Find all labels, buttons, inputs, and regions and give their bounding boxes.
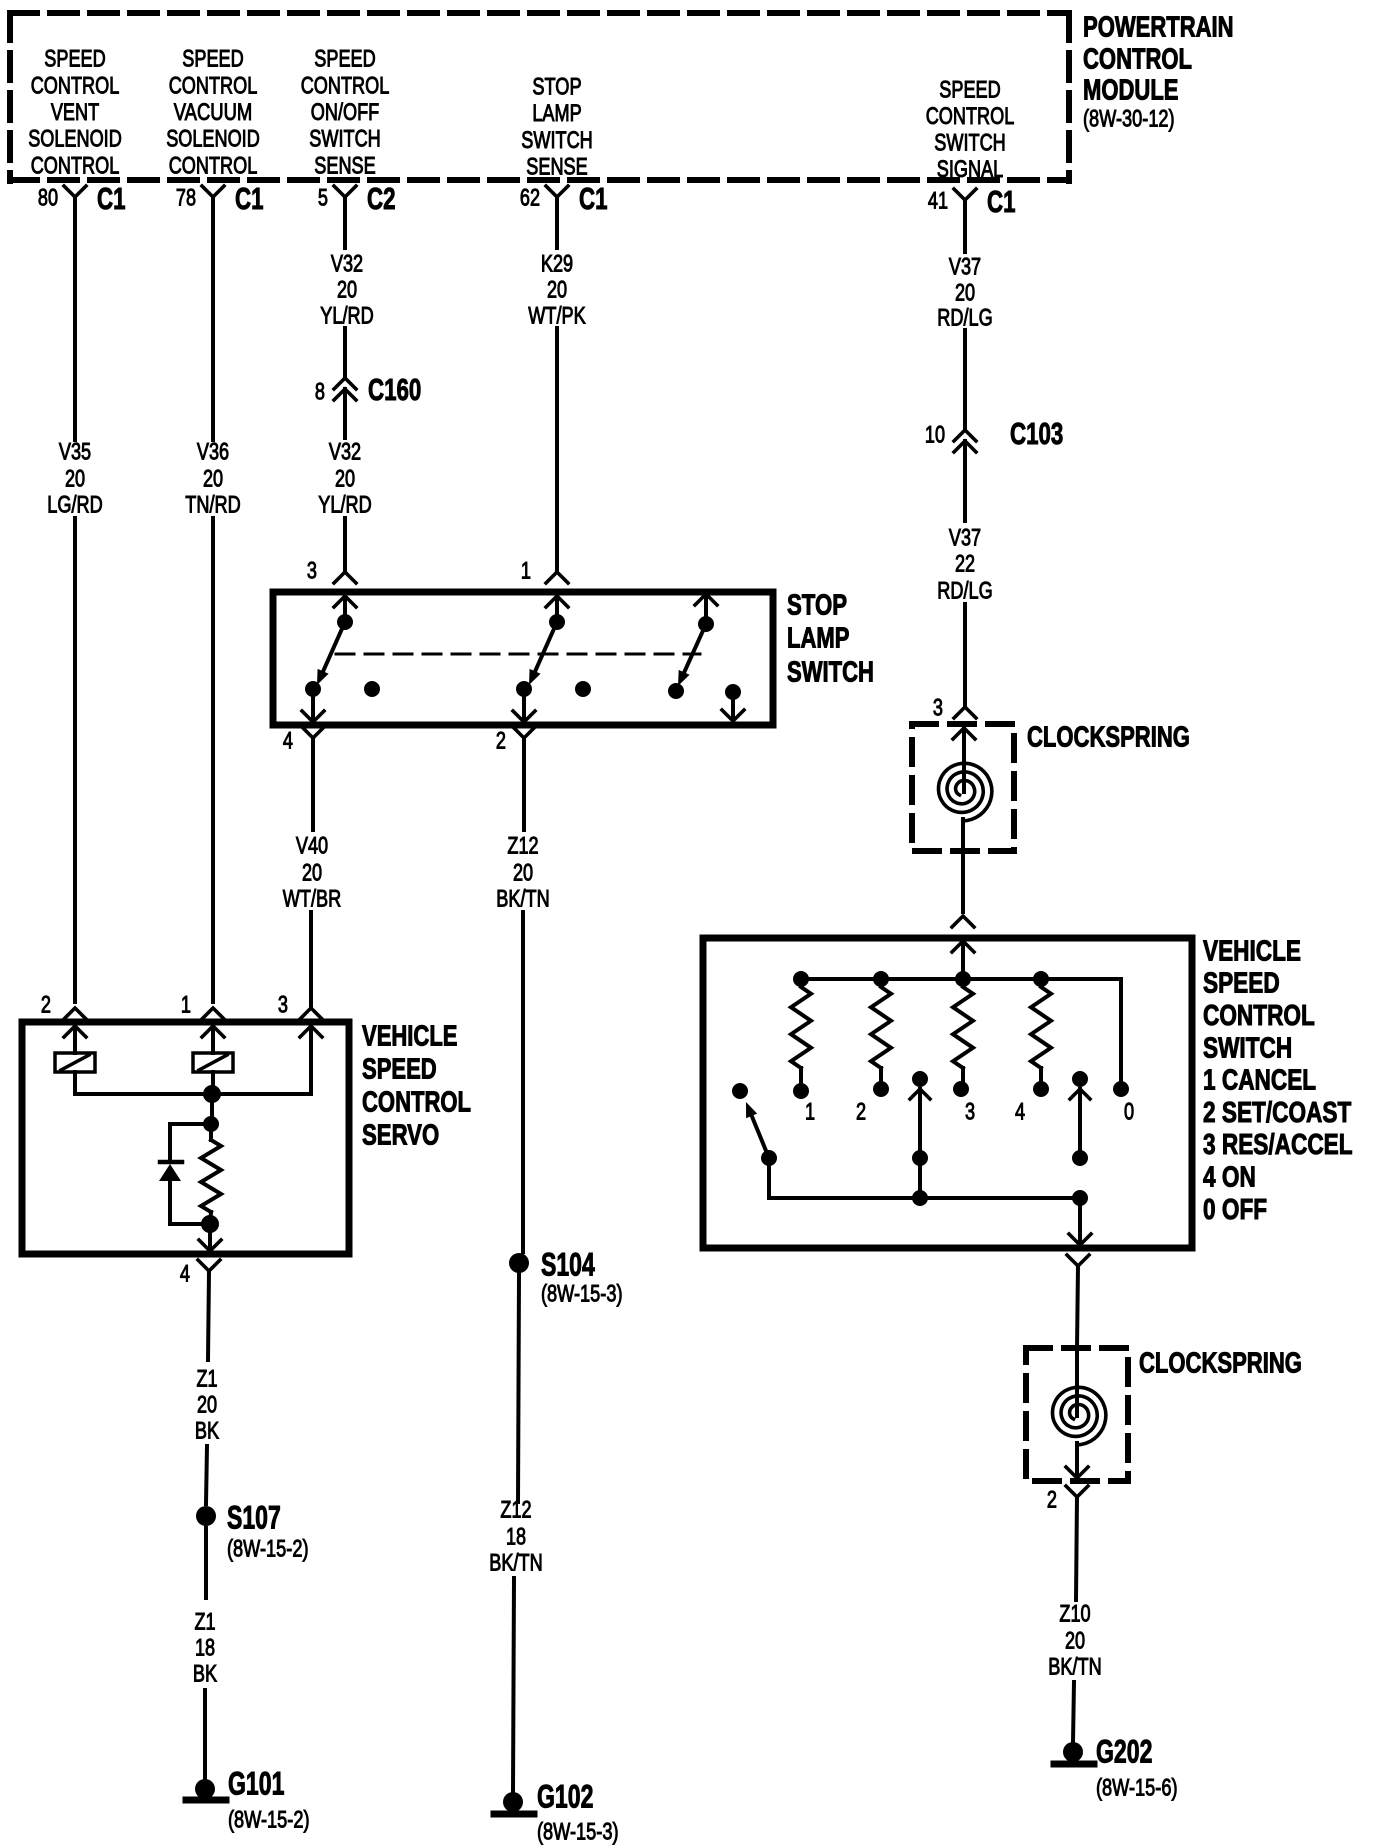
wire V35 upper segment: [73, 197, 77, 440]
servo diode branch wire: [170, 1124, 211, 1160]
in-line connector C103 pin 10: [925, 416, 1063, 452]
svg-text:SIGNAL: SIGNAL: [937, 156, 1004, 183]
wire label V35 20 LG/RD: [47, 439, 102, 519]
PCM pin label: SPEED CONTROL SWITCH SIGNAL: [926, 77, 1015, 183]
svg-text:RD/LG: RD/LG: [937, 305, 992, 332]
switch contact 4: [1033, 1081, 1049, 1097]
wire Z12 to ground G102: [513, 1578, 514, 1792]
svg-text:SPEED: SPEED: [314, 46, 375, 73]
PCM pin label: SPEED CONTROL VACUUM SOLENOID CONTROL: [166, 46, 260, 180]
servo title VEHICLE SPEED CONTROL SERVO: [362, 1020, 471, 1151]
svg-text:VEHICLE: VEHICLE: [362, 1020, 458, 1052]
clockspring upper dashed box: [912, 724, 1014, 851]
stop lamp switch pole 3 entry arrow: [695, 594, 717, 618]
PCM pin 80 connector C1: [38, 181, 126, 216]
wire Z12 below S104: [518, 1274, 519, 1502]
switch movable contact A wire to bus: [918, 1158, 922, 1198]
clockspring lower spiral: [1053, 1387, 1106, 1445]
stop lamp switch pole 1 upper contact: [337, 614, 353, 630]
svg-text:62: 62: [520, 185, 540, 212]
wire V40 upper segment: [311, 738, 315, 830]
svg-text:VACUUM: VACUUM: [174, 99, 253, 126]
switch contact 0: [1113, 1081, 1129, 1097]
svg-text:V32: V32: [331, 251, 363, 278]
stop lamp switch title: [787, 589, 874, 688]
servo pin 4 connector: [180, 1260, 220, 1288]
svg-text:CONTROL: CONTROL: [31, 72, 120, 99]
svg-text:V35: V35: [59, 439, 91, 466]
svg-text:20: 20: [513, 860, 533, 887]
stop lamp switch pin 3 entry connector: [307, 558, 356, 585]
svg-text:3: 3: [307, 558, 317, 585]
svg-text:(8W-30-12): (8W-30-12): [1083, 106, 1175, 133]
svg-text:C103: C103: [1010, 416, 1063, 451]
svg-text:10: 10: [925, 422, 945, 449]
servo pin 3 connector: [278, 992, 322, 1019]
svg-text:LG/RD: LG/RD: [47, 492, 102, 519]
svg-text:SENSE: SENSE: [314, 152, 375, 179]
svg-text:2 SET/COAST: 2 SET/COAST: [1203, 1097, 1352, 1129]
wire K29 lower segment: [555, 328, 559, 572]
vehicle speed control switch title: [1203, 935, 1353, 1225]
switch contact 3: [953, 1081, 969, 1097]
svg-text:3 RES/ACCEL: 3 RES/ACCEL: [1203, 1129, 1353, 1161]
stop lamp switch pole 1 lower contact: [305, 681, 321, 697]
PCM pin label: SPEED CONTROL ON/OFF SWITCH SENSE: [301, 46, 390, 180]
svg-text:BK/TN: BK/TN: [1048, 1654, 1101, 1681]
svg-text:SPEED: SPEED: [1203, 968, 1280, 1000]
switch wiper fixed contact: [732, 1083, 748, 1099]
switch wiper pivot contact: [761, 1150, 777, 1166]
servo diode: [159, 1162, 182, 1181]
clockspring upper entry arrow: [953, 728, 975, 792]
wire label V32 20 YL/RD (upper): [320, 251, 373, 330]
switch contact 1: [793, 1083, 809, 1099]
stop lamp switch pole 1 blade: [323, 622, 345, 671]
svg-text:4: 4: [180, 1261, 190, 1288]
stop lamp switch pin 2 exit connector: [496, 727, 535, 755]
svg-text:WT/PK: WT/PK: [528, 303, 585, 330]
switch resistor 4: [1031, 987, 1051, 1081]
servo bus junction: [203, 1085, 221, 1103]
svg-text:2: 2: [1047, 1487, 1057, 1514]
svg-text:K29: K29: [541, 251, 573, 278]
svg-text:Z1: Z1: [194, 1609, 215, 1636]
svg-text:20: 20: [197, 1392, 217, 1419]
wire V40 lower segment: [309, 912, 313, 1006]
stop lamp switch pole 2 NC contact: [575, 681, 591, 697]
stop lamp switch box: [273, 592, 773, 725]
wire V37 segment from PCM: [963, 200, 967, 252]
switch movable contact A node: [912, 1150, 928, 1166]
svg-text:(8W-15-3): (8W-15-3): [541, 1281, 623, 1308]
switch contact 2: [873, 1081, 889, 1097]
svg-text:RD/LG: RD/LG: [937, 578, 992, 605]
PCM pin label: SPEED CONTROL VENT SOLENOID CONTROL: [28, 46, 122, 180]
svg-text:G102: G102: [537, 1779, 593, 1815]
servo pin 1 entry arrow: [202, 1026, 224, 1053]
wire V36 upper segment: [211, 197, 215, 440]
wire K29 upper segment: [555, 197, 559, 248]
svg-text:(8W-15-2): (8W-15-2): [227, 1536, 309, 1563]
clockspring upper spiral: [939, 763, 992, 821]
svg-text:SERVO: SERVO: [362, 1119, 439, 1151]
svg-text:Z1: Z1: [196, 1366, 217, 1393]
powertrain control module PCM dashed box: [10, 13, 1069, 181]
svg-text:V40: V40: [296, 833, 328, 860]
svg-text:CONTROL: CONTROL: [926, 103, 1015, 130]
wire Z12 to splice S104: [521, 912, 525, 1252]
wire label V37 20 RD/LG: [937, 254, 992, 332]
wire from switch to lower clockspring: [1077, 1266, 1078, 1348]
svg-text:BK/TN: BK/TN: [489, 1550, 542, 1577]
ground G202: [1054, 1734, 1178, 1802]
servo diode lower wire: [170, 1181, 209, 1224]
svg-text:POWERTRAIN: POWERTRAIN: [1083, 11, 1234, 43]
svg-text:20: 20: [65, 466, 85, 493]
switch bus junction dots: [793, 971, 1049, 987]
svg-text:TN/RD: TN/RD: [185, 492, 240, 519]
switch bottom bus wire: [769, 1158, 1080, 1198]
wire label V36 20 TN/RD: [185, 439, 240, 519]
svg-text:8: 8: [315, 379, 325, 406]
svg-text:LAMP: LAMP: [532, 100, 581, 127]
switch movable contact B node: [1072, 1150, 1088, 1166]
svg-text:1: 1: [521, 558, 531, 585]
svg-text:SWITCH: SWITCH: [521, 127, 593, 154]
svg-text:5: 5: [318, 185, 328, 212]
wire Z1 to splice S107: [206, 1446, 207, 1504]
svg-text:C1: C1: [235, 181, 264, 216]
svg-text:CLOCKSPRING: CLOCKSPRING: [1027, 721, 1190, 753]
wire V37 to C103: [963, 330, 967, 429]
svg-text:Z12: Z12: [500, 1497, 531, 1524]
clockspring upper exit wire: [961, 819, 965, 912]
svg-text:80: 80: [38, 185, 58, 212]
svg-text:WT/BR: WT/BR: [283, 886, 341, 913]
svg-text:20: 20: [1065, 1628, 1085, 1655]
stop lamp switch pole 3 lower contact: [668, 683, 684, 699]
svg-text:SWITCH: SWITCH: [309, 126, 381, 153]
switch resistor 1: [791, 987, 811, 1083]
stop lamp switch pole 3 upper contact: [698, 616, 714, 632]
svg-text:20: 20: [335, 466, 355, 493]
switch movable contact B: [1070, 1071, 1090, 1150]
svg-text:CONTROL: CONTROL: [301, 72, 390, 99]
PCM pin label: STOP LAMP SWITCH SENSE: [521, 74, 593, 181]
servo pin 1 connector: [181, 992, 224, 1019]
svg-text:1 CANCEL: 1 CANCEL: [1203, 1065, 1316, 1097]
svg-text:20: 20: [337, 277, 357, 304]
stop lamp switch pin 3 entry arrow: [334, 596, 356, 618]
svg-text:SWITCH: SWITCH: [1203, 1032, 1292, 1064]
PCM pin 5 connector C2: [318, 181, 396, 216]
in-line connector C160 pin 8: [315, 372, 421, 407]
svg-text:SPEED: SPEED: [939, 77, 1000, 104]
svg-text:V32: V32: [329, 439, 361, 466]
PCM pin 78 connector C1: [176, 181, 264, 216]
wire label Z1 18 BK: [193, 1609, 217, 1688]
svg-text:CONTROL: CONTROL: [31, 152, 120, 179]
wire V35 lower segment: [73, 518, 77, 1002]
svg-text:YL/RD: YL/RD: [318, 492, 371, 519]
svg-text:V37: V37: [949, 254, 981, 281]
wire label Z10 20 BK/TN: [1048, 1601, 1101, 1681]
svg-text:Z10: Z10: [1059, 1601, 1090, 1628]
svg-text:C1: C1: [97, 181, 126, 216]
svg-text:2: 2: [496, 728, 506, 755]
stop lamp switch pole 3 blade: [684, 624, 706, 672]
servo pin 3 entry arrow: [300, 1026, 322, 1094]
switch resistor 2: [871, 987, 891, 1081]
svg-text:2: 2: [41, 992, 51, 1019]
svg-text:G101: G101: [228, 1766, 284, 1802]
clockspring pin 3 connector: [933, 695, 976, 722]
svg-text:3: 3: [278, 992, 288, 1019]
svg-text:V36: V36: [197, 439, 229, 466]
svg-text:(8W-15-2): (8W-15-2): [228, 1807, 310, 1834]
wire label Z12 18 BK/TN: [489, 1497, 542, 1577]
switch bottom bus junction A: [912, 1190, 928, 1206]
svg-text:BK: BK: [193, 1661, 217, 1688]
splice S104: [509, 1247, 623, 1308]
wire Z1 to ground G101: [203, 1690, 207, 1780]
stop lamp switch pole 2 lower contact: [516, 681, 532, 697]
svg-text:4: 4: [283, 728, 293, 755]
servo internal bus wire: [75, 1072, 311, 1094]
servo vacuum solenoid coil: [193, 1053, 233, 1072]
svg-text:CONTROL: CONTROL: [1203, 1000, 1315, 1032]
svg-text:18: 18: [195, 1635, 215, 1662]
svg-text:(8W-15-6): (8W-15-6): [1096, 1775, 1178, 1802]
svg-text:20: 20: [302, 860, 322, 887]
wire Z1 below S107: [204, 1528, 208, 1598]
svg-text:BK/TN: BK/TN: [496, 886, 549, 913]
wire V37 to clockspring pin 3: [963, 604, 967, 707]
wire V32 to C160: [343, 328, 347, 377]
wire Z12 upper segment: [522, 738, 526, 830]
wire V37 below C103: [963, 441, 967, 521]
svg-text:CONTROL: CONTROL: [169, 152, 258, 179]
svg-text:20: 20: [203, 466, 223, 493]
svg-text:SWITCH: SWITCH: [787, 656, 874, 688]
svg-text:V37: V37: [949, 525, 981, 552]
svg-text:0: 0: [1124, 1099, 1134, 1126]
wire V32 segment from PCM: [343, 197, 347, 248]
svg-text:LAMP: LAMP: [787, 622, 849, 654]
switch exit wire with arrow: [1069, 1198, 1091, 1245]
svg-text:STOP: STOP: [532, 74, 581, 101]
svg-text:CLOCKSPRING: CLOCKSPRING: [1139, 1347, 1302, 1379]
wire label Z1 20 BK: [195, 1366, 219, 1445]
svg-text:41: 41: [928, 188, 948, 215]
svg-text:4 ON: 4 ON: [1203, 1162, 1256, 1194]
wire Z1 upper segment: [208, 1271, 209, 1360]
svg-text:Z12: Z12: [507, 833, 538, 860]
clockspring lower exit arrow: [1066, 1443, 1088, 1478]
svg-text:C1: C1: [987, 184, 1016, 219]
wire label V40 20 WT/BR: [283, 833, 341, 913]
stop lamp switch pin 4 exit connector: [283, 727, 324, 755]
svg-text:SOLENOID: SOLENOID: [28, 126, 122, 153]
svg-text:MODULE: MODULE: [1083, 74, 1179, 106]
svg-text:BK: BK: [195, 1418, 219, 1445]
ground G101: [186, 1766, 310, 1834]
stop lamp switch pole 2 blade: [535, 622, 557, 671]
svg-text:C1: C1: [579, 181, 608, 216]
svg-text:SPEED: SPEED: [182, 46, 243, 73]
wire label V37 22 RD/LG: [937, 525, 992, 605]
svg-text:CONTROL: CONTROL: [1083, 43, 1192, 75]
clockspring lower entry wire: [1075, 1348, 1079, 1416]
svg-text:18: 18: [506, 1524, 526, 1551]
switch top bus wire: [801, 979, 1121, 1081]
wire Z10 to ground G202: [1073, 1682, 1074, 1742]
svg-text:22: 22: [955, 551, 975, 578]
servo exit wire with arrow: [199, 1224, 221, 1251]
wire label K29 20 WT/PK: [528, 251, 585, 330]
svg-text:VEHICLE: VEHICLE: [1203, 935, 1301, 967]
wire label Z12 20 BK/TN: [496, 833, 549, 913]
PCM pin 41 connector C1: [928, 184, 1016, 219]
wire V32 to stop lamp switch: [343, 518, 347, 572]
switch bottom bus junction B: [1072, 1190, 1088, 1206]
stop lamp switch mechanical coupling dashed line: [336, 653, 700, 656]
svg-text:78: 78: [176, 185, 196, 212]
PCM title POWERTRAIN CONTROL MODULE (8W-30-12): [1083, 11, 1234, 132]
stop lamp switch pin 1 entry arrow: [546, 596, 568, 618]
switch wiper blade: [752, 1116, 769, 1158]
clockspring pin 2 connector: [1047, 1486, 1088, 1514]
servo pin 2 entry arrow: [64, 1026, 86, 1053]
svg-text:ON/OFF: ON/OFF: [311, 99, 380, 126]
vehicle speed control switch entry connector: [952, 916, 974, 927]
svg-text:SPEED: SPEED: [44, 46, 105, 73]
svg-text:CONTROL: CONTROL: [362, 1086, 471, 1118]
servo resistor: [201, 1124, 221, 1224]
svg-text:20: 20: [955, 280, 975, 307]
svg-text:SENSE: SENSE: [526, 153, 587, 180]
wire Z10 upper segment: [1076, 1497, 1077, 1600]
vehicle speed control switch entry arrow: [952, 941, 974, 979]
svg-text:YL/RD: YL/RD: [320, 303, 373, 330]
stop lamp switch pole 1 NC contact: [364, 681, 380, 697]
svg-text:0 OFF: 0 OFF: [1203, 1194, 1267, 1226]
switch exit connector: [1067, 1255, 1089, 1266]
wire V32 below C160: [343, 389, 347, 438]
wire label V32 20 YL/RD (lower): [318, 439, 371, 519]
stop lamp switch pin 1 entry connector: [521, 558, 568, 585]
svg-text:3: 3: [933, 695, 943, 722]
servo lower junction: [201, 1215, 219, 1233]
servo wire to resistor/diode node: [210, 1094, 214, 1124]
svg-text:SWITCH: SWITCH: [934, 129, 1006, 156]
servo vent solenoid coil: [55, 1053, 95, 1072]
stop lamp switch pole 3 NC contact with stub: [722, 684, 744, 721]
svg-text:C2: C2: [367, 181, 396, 216]
svg-text:20: 20: [547, 277, 567, 304]
PCM pin 62 connector C1: [520, 181, 608, 216]
splice S107: [196, 1500, 309, 1563]
svg-text:S104: S104: [541, 1247, 595, 1283]
stop lamp switch pole 2 exit arrow: [513, 689, 535, 722]
svg-text:4: 4: [1015, 1099, 1025, 1126]
vehicle speed control servo box: [22, 1022, 349, 1254]
svg-text:1: 1: [805, 1099, 815, 1126]
svg-text:SOLENOID: SOLENOID: [166, 126, 260, 153]
clockspring lower dashed box: [1026, 1348, 1128, 1481]
stop lamp switch pole 1 exit arrow: [302, 689, 324, 722]
svg-text:1: 1: [181, 992, 191, 1019]
ground G102: [494, 1779, 619, 1846]
svg-text:(8W-15-3): (8W-15-3): [537, 1819, 619, 1846]
stop lamp switch pole 2 upper contact: [549, 614, 565, 630]
vehicle speed control switch box: [703, 938, 1192, 1248]
servo node above resistor: [203, 1116, 219, 1132]
svg-text:C160: C160: [368, 372, 421, 407]
wire V36 lower segment: [211, 518, 215, 1002]
svg-text:CONTROL: CONTROL: [169, 72, 258, 99]
svg-text:SPEED: SPEED: [362, 1053, 437, 1085]
servo pin 2 connector: [41, 992, 86, 1019]
svg-text:VENT: VENT: [51, 99, 100, 126]
svg-text:S107: S107: [227, 1500, 281, 1536]
switch movable contact A: [910, 1071, 930, 1150]
svg-text:3: 3: [965, 1099, 975, 1126]
svg-text:2: 2: [856, 1099, 866, 1126]
svg-text:G202: G202: [1096, 1734, 1152, 1770]
switch resistor 3: [953, 987, 973, 1081]
svg-text:STOP: STOP: [787, 589, 847, 621]
